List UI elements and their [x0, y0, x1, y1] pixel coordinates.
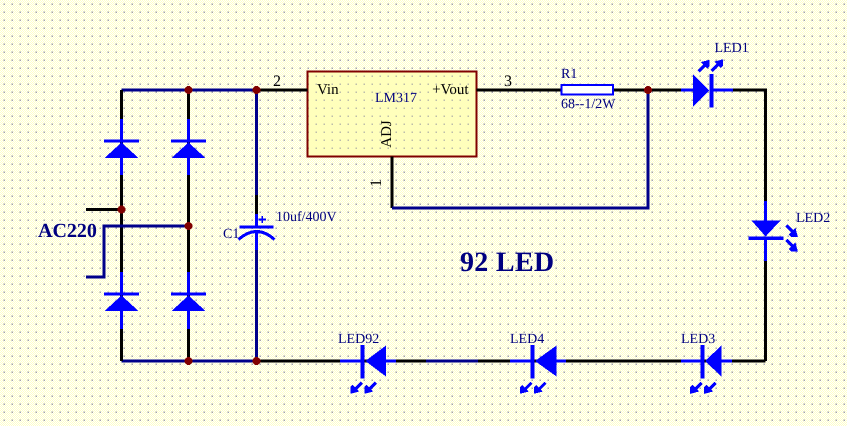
junction: AC stub / left branch: [118, 206, 126, 214]
junction: AC wire / mid branch: [185, 222, 193, 230]
svg-text:3: 3: [504, 73, 512, 90]
LED D-LED3: [681, 345, 732, 394]
wire: ADJ pin down: [391, 157, 394, 209]
wire: AC input navy zigzag: [86, 226, 189, 277]
svg-text:Vin: Vin: [317, 82, 339, 98]
wire: bottom rail navy segment left: [122, 360, 257, 363]
wire: capacitor branch bottom navy: [255, 250, 258, 361]
wire: bottom rail: [122, 360, 766, 363]
junction: mid branch / bottom rail: [185, 357, 193, 365]
wire: capacitor branch black: [255, 195, 258, 214]
svg-text:LED3: LED3: [681, 332, 715, 347]
wire: Vin pin black: [257, 89, 308, 92]
regulator U1 LM317 body: [308, 72, 477, 157]
wire: Vout to R1: [477, 89, 562, 92]
wire: LED2 down to bottom rail corner: [764, 261, 767, 361]
wire: bridge left branch: [120, 90, 123, 361]
svg-text:R1: R1: [561, 67, 577, 82]
bridge diode bottom-left: [104, 272, 139, 329]
wire: R1 to LED1 node: [613, 89, 681, 92]
svg-text:LM317: LM317: [375, 91, 417, 106]
svg-text:1: 1: [368, 179, 385, 187]
junction: R1 output node: [644, 86, 652, 94]
capacitor C1: [239, 214, 275, 250]
wire: AC input top stub: [86, 208, 122, 211]
junction: cap branch / bottom rail: [253, 357, 261, 365]
svg-text:LED1: LED1: [715, 41, 749, 56]
wire: LED1 to right corner and down: [733, 90, 766, 201]
svg-text:LED4: LED4: [510, 332, 544, 347]
bridge diode bottom-right: [171, 272, 206, 329]
svg-text:LED2: LED2: [796, 211, 830, 226]
wire: capacitor branch top navy: [255, 90, 258, 195]
svg-text:LED92: LED92: [338, 332, 379, 347]
svg-text:10uf/400V: 10uf/400V: [276, 210, 337, 225]
wire: bridge middle branch: [187, 90, 190, 361]
svg-text:ADJ: ADJ: [379, 120, 395, 148]
LED D-LED2: [749, 201, 798, 261]
bridge diode top-left: [104, 119, 139, 175]
junction: mid branch / top rail: [185, 86, 193, 94]
LED D-LED4: [510, 345, 566, 394]
LED D-LED1: [681, 59, 733, 107]
svg-text:2: 2: [273, 73, 281, 90]
LED D-LED92: [340, 345, 396, 394]
wire: top rail navy from bridge to cap node: [122, 89, 257, 92]
svg-text:92 LED: 92 LED: [460, 247, 554, 278]
svg-text:C1: C1: [223, 227, 239, 242]
bridge diode top-right: [171, 119, 206, 175]
wire: bottom rail navy segment: [426, 360, 478, 363]
svg-text:+Vout: +Vout: [432, 82, 469, 98]
junction: cap branch / top rail: [253, 86, 261, 94]
svg-text:AC220: AC220: [38, 220, 97, 242]
resistor R1: [562, 85, 614, 95]
wire: ADJ feedback navy: [392, 90, 648, 208]
svg-text:68--1/2W: 68--1/2W: [561, 97, 616, 112]
